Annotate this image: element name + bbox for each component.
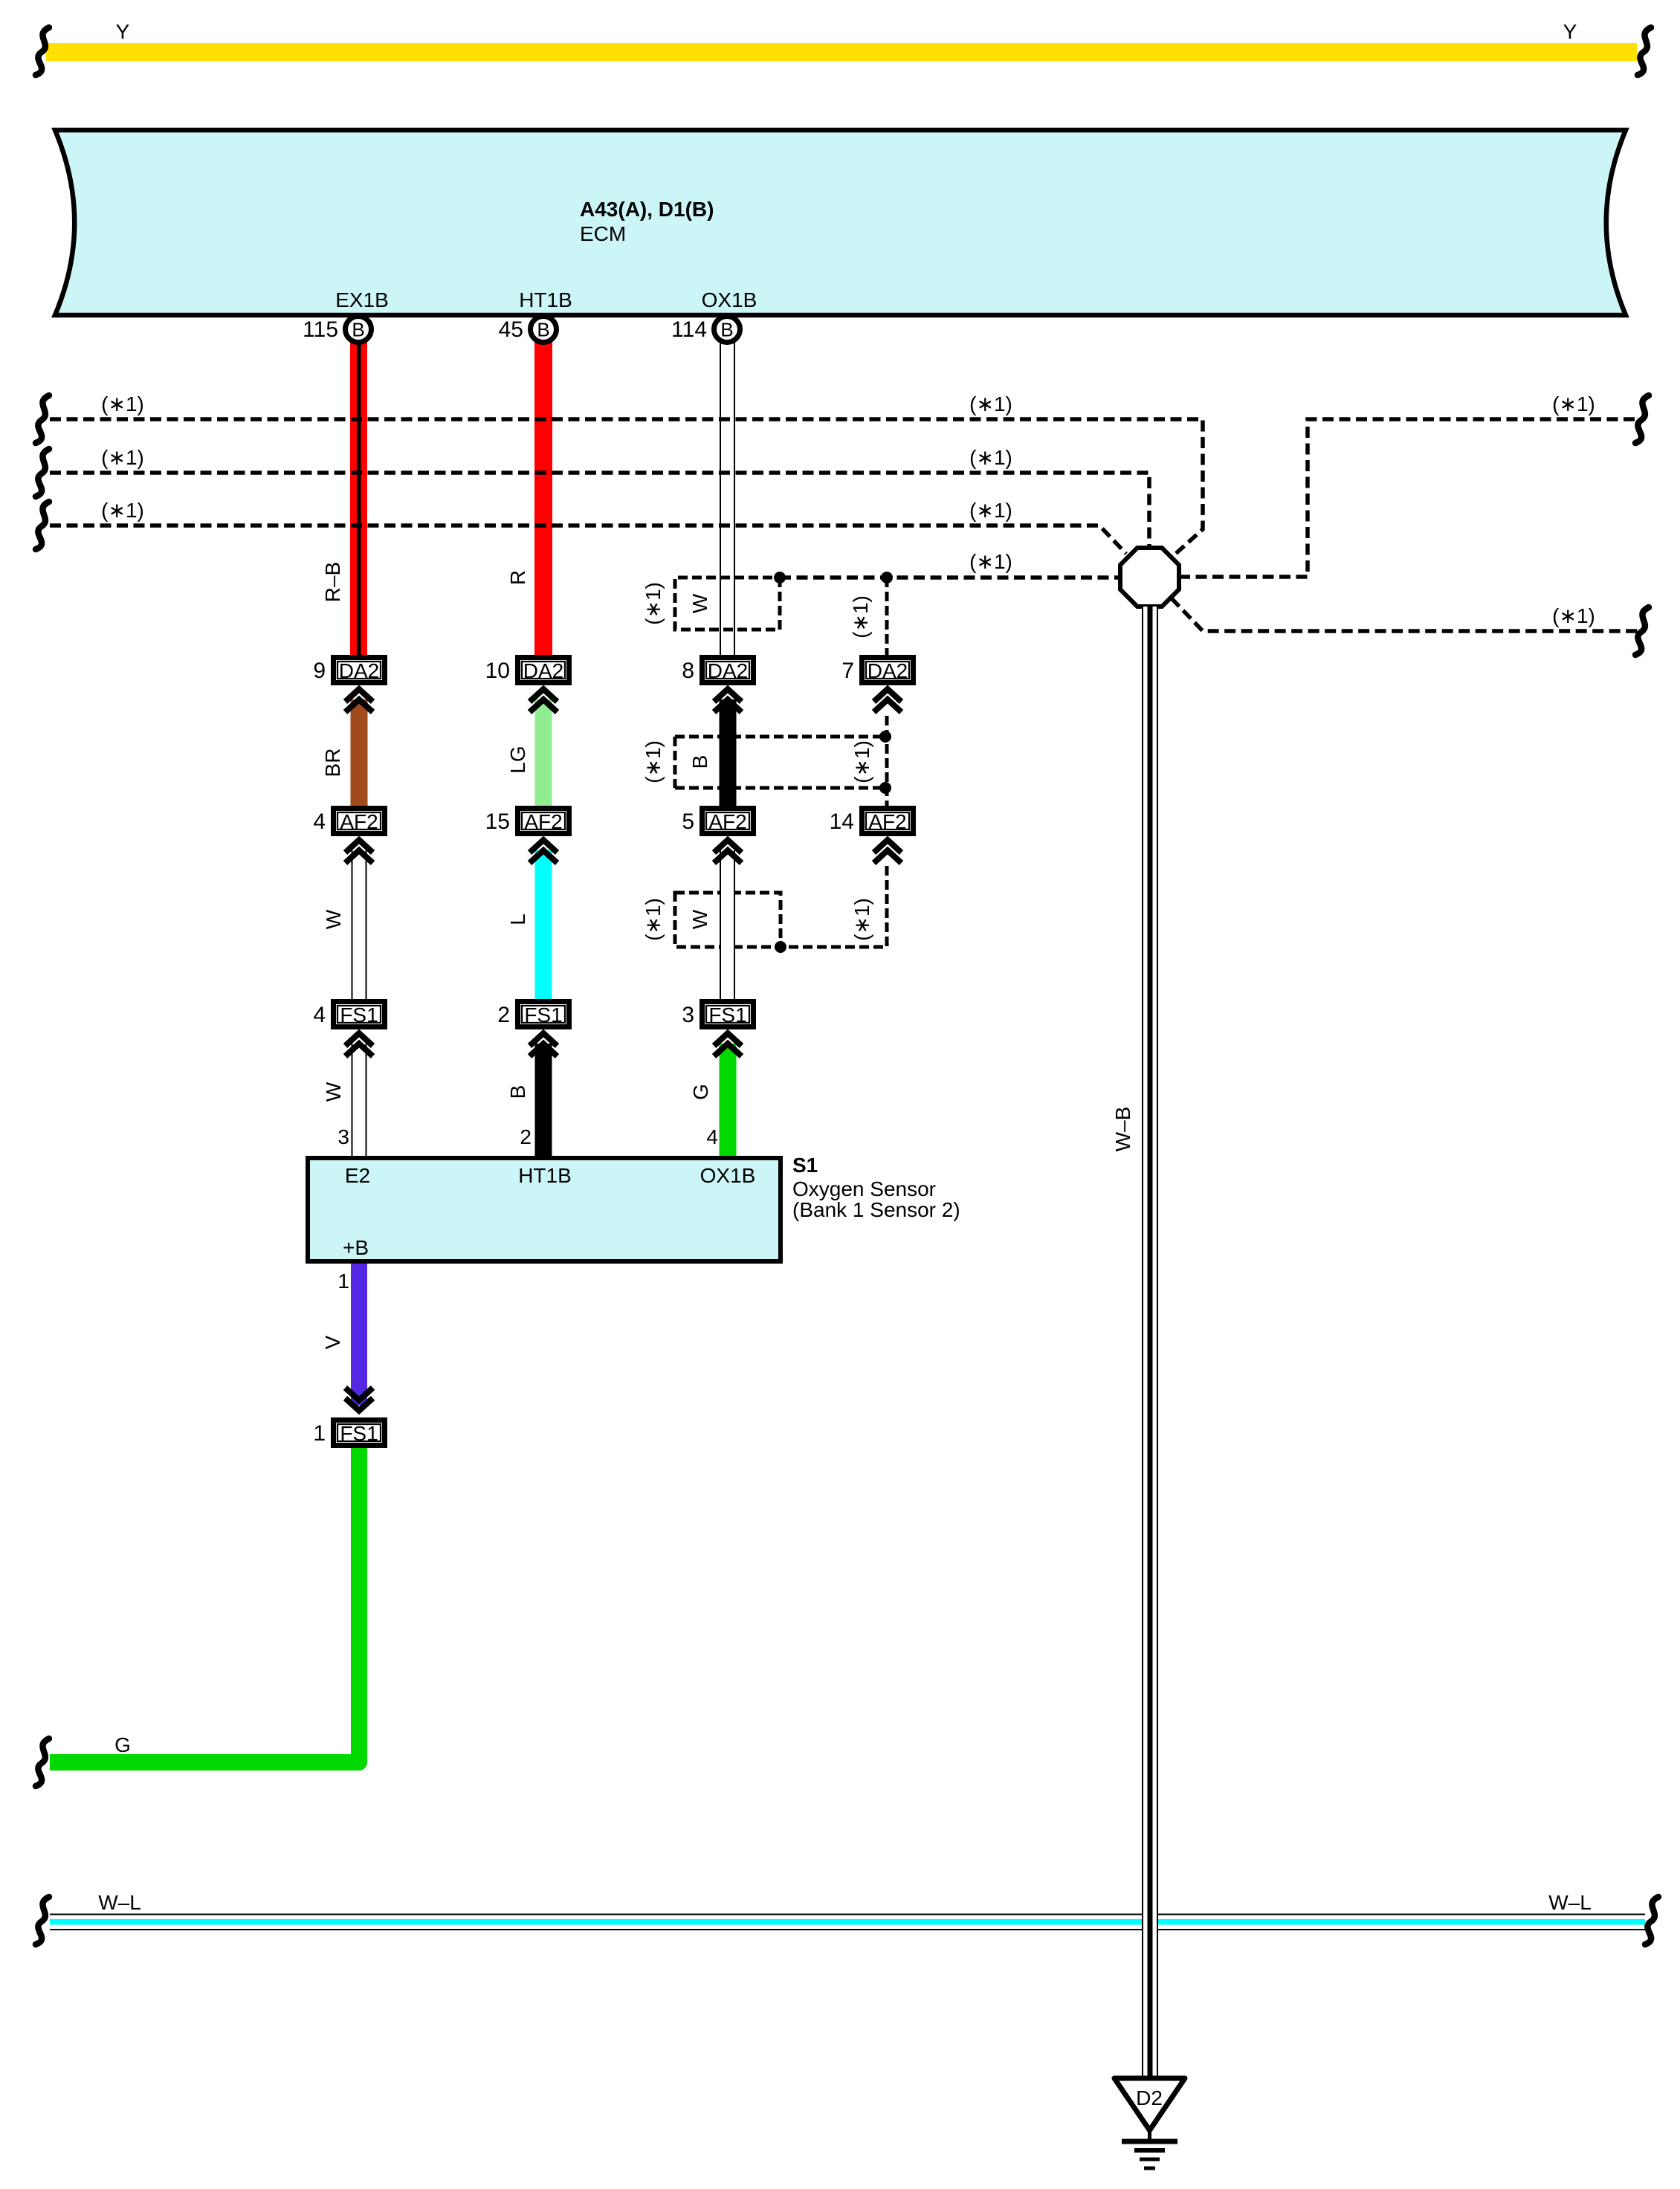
svg-text:(∗1): (∗1) [1552, 604, 1595, 627]
svg-text:AF2: AF2 [708, 810, 746, 833]
svg-text:DA2: DA2 [339, 659, 379, 682]
svg-text:EX1B: EX1B [335, 288, 389, 311]
svg-text:8: 8 [682, 659, 694, 683]
svg-text:+B: +B [343, 1236, 369, 1259]
svg-text:G: G [689, 1084, 712, 1100]
svg-text:1: 1 [337, 1270, 349, 1293]
svg-text:AF2: AF2 [340, 810, 378, 833]
svg-text:(∗1): (∗1) [849, 595, 872, 638]
svg-text:(∗1): (∗1) [642, 740, 665, 783]
svg-text:W–B: W–B [1111, 1107, 1134, 1152]
svg-text:(∗1): (∗1) [101, 446, 144, 469]
svg-text:E2: E2 [345, 1164, 370, 1187]
svg-text:B: B [688, 755, 711, 769]
svg-text:3: 3 [337, 1125, 349, 1148]
svg-text:OX1B: OX1B [700, 1164, 756, 1187]
svg-text:4: 4 [313, 1003, 326, 1027]
svg-text:2: 2 [497, 1003, 510, 1027]
svg-text:14: 14 [830, 809, 854, 834]
svg-text:HT1B: HT1B [519, 288, 572, 311]
svg-text:2: 2 [520, 1125, 532, 1148]
svg-text:B: B [720, 319, 733, 341]
svg-text:(∗1): (∗1) [101, 392, 144, 416]
svg-text:DA2: DA2 [708, 659, 748, 682]
svg-text:(∗1): (∗1) [101, 499, 144, 522]
svg-text:3: 3 [682, 1003, 694, 1027]
svg-text:FS1: FS1 [340, 1422, 378, 1445]
svg-text:W: W [322, 1081, 345, 1102]
svg-text:(∗1): (∗1) [642, 582, 665, 625]
svg-text:S1: S1 [792, 1154, 818, 1177]
svg-text:10: 10 [485, 659, 510, 683]
svg-text:45: 45 [499, 317, 523, 342]
svg-text:Oxygen Sensor: Oxygen Sensor [792, 1177, 936, 1200]
svg-text:W: W [322, 909, 345, 929]
svg-text:B: B [352, 319, 364, 341]
svg-text:LG: LG [506, 746, 529, 773]
svg-text:(∗1): (∗1) [969, 499, 1012, 522]
svg-text:115: 115 [303, 317, 338, 342]
svg-text:(∗1): (∗1) [642, 898, 665, 941]
svg-text:(Bank 1 Sensor 2): (Bank 1 Sensor 2) [792, 1198, 960, 1221]
svg-text:AF2: AF2 [524, 810, 562, 833]
svg-text:5: 5 [682, 809, 694, 834]
svg-text:(∗1): (∗1) [850, 740, 873, 783]
svg-text:1: 1 [313, 1421, 326, 1446]
svg-text:D2: D2 [1136, 2086, 1163, 2109]
svg-text:HT1B: HT1B [518, 1164, 572, 1187]
svg-text:FS1: FS1 [708, 1003, 746, 1026]
svg-text:FS1: FS1 [524, 1003, 562, 1026]
svg-text:DA2: DA2 [868, 659, 908, 682]
svg-text:W–L: W–L [1548, 1891, 1592, 1914]
svg-text:4: 4 [706, 1125, 718, 1148]
svg-text:R: R [506, 570, 529, 585]
svg-text:G: G [114, 1733, 131, 1756]
svg-text:ECM: ECM [580, 222, 626, 245]
svg-text:Y: Y [1563, 20, 1577, 43]
svg-text:9: 9 [313, 659, 326, 683]
svg-text:7: 7 [841, 659, 854, 683]
svg-text:15: 15 [485, 809, 510, 834]
svg-text:Y: Y [116, 20, 130, 43]
svg-text:W–L: W–L [98, 1891, 141, 1914]
svg-text:4: 4 [313, 809, 326, 834]
svg-text:B: B [506, 1085, 529, 1099]
svg-text:V: V [321, 1335, 344, 1349]
svg-text:(∗1): (∗1) [969, 392, 1012, 416]
svg-text:B: B [537, 319, 549, 341]
svg-text:114: 114 [671, 317, 707, 342]
svg-text:OX1B: OX1B [702, 288, 757, 311]
svg-text:BR: BR [321, 748, 344, 777]
svg-text:AF2: AF2 [868, 810, 906, 833]
svg-text:(∗1): (∗1) [1552, 392, 1595, 416]
svg-text:(∗1): (∗1) [850, 898, 873, 941]
svg-text:W: W [688, 909, 711, 929]
svg-text:L: L [506, 914, 529, 925]
svg-text:A43(A), D1(B): A43(A), D1(B) [580, 198, 714, 221]
svg-text:(∗1): (∗1) [969, 550, 1012, 573]
svg-text:W: W [688, 593, 711, 613]
svg-text:DA2: DA2 [523, 659, 563, 682]
svg-text:FS1: FS1 [340, 1003, 378, 1026]
svg-text:(∗1): (∗1) [969, 446, 1012, 469]
svg-text:R–B: R–B [321, 562, 344, 602]
